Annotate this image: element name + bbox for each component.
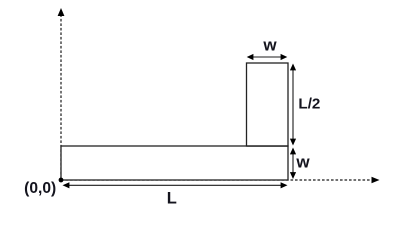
svg-text:w: w: [295, 153, 310, 172]
origin dot: [59, 178, 64, 183]
x-axis dashed line: [61, 179, 373, 181]
L dimension arrow (below flange): [68, 184, 281, 186]
top edge of flange continued under stub: [247, 145, 289, 147]
y-axis arrowhead: [58, 8, 65, 16]
svg-text:L/2: L/2: [298, 96, 320, 113]
x-axis arrowhead: [372, 177, 380, 183]
svg-text:L: L: [167, 189, 177, 207]
L/2 dimension arrow (right of stub): [292, 69, 294, 139]
y-axis dashed line: [60, 15, 62, 179]
svg-text:(0,0): (0,0): [24, 180, 56, 197]
w dimension arrow (right of flange): [292, 153, 294, 173]
vertical rectangle (stub), width w height L/2: [247, 63, 289, 146]
horizontal rectangle (flange), length L height w: [61, 146, 288, 180]
w dimension arrow (top of stub): [252, 56, 282, 58]
svg-text:w: w: [262, 35, 277, 54]
